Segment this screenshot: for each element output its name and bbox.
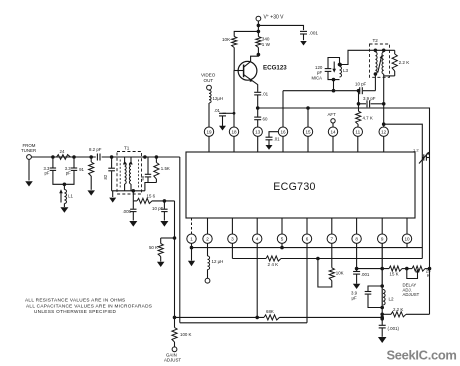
wire (374, 74, 376, 91)
svg-text:15 6: 15 6 (147, 194, 156, 199)
wire (332, 136, 334, 152)
wire (179, 157, 181, 323)
wire (269, 132, 279, 137)
wire (363, 90, 376, 92)
ground (60, 207, 68, 213)
svg-text:18: 18 (231, 129, 237, 134)
wire (63, 204, 65, 208)
winding T2 primary (375, 52, 377, 74)
junction (332, 78, 336, 82)
node GAIN ADJUST terminal (164, 347, 181, 363)
wire (370, 49, 395, 51)
wire (257, 48, 259, 55)
junction (132, 189, 136, 193)
wire (64, 171, 74, 185)
resistor 10K (222, 37, 237, 48)
wire (268, 140, 270, 145)
transistor Q1 ECG123 (234, 61, 287, 82)
capacitor 82 (103, 157, 115, 180)
junction (380, 316, 384, 320)
svg-text:6: 6 (306, 236, 309, 241)
junction (257, 24, 261, 28)
note text (25, 298, 152, 315)
junction (374, 72, 378, 76)
svg-text:100 K: 100 K (180, 332, 192, 337)
wire pin15 (307, 108, 309, 127)
pin 13 (253, 127, 262, 136)
capacitor 60 (254, 116, 268, 121)
svg-text:(.001): (.001) (388, 326, 400, 331)
svg-text:ECG730: ECG730 (273, 181, 315, 193)
pin 11 (353, 127, 362, 136)
svg-text:L3: L3 (343, 68, 349, 73)
svg-text:1.5K: 1.5K (161, 166, 170, 171)
pin 1 (187, 234, 196, 243)
wire (208, 136, 210, 152)
svg-text:5: 5 (281, 236, 284, 241)
inductor 12uH (pin2) (208, 256, 224, 270)
wire (163, 212, 165, 221)
svg-text:OUT: OUT (204, 78, 214, 83)
svg-text:3: 3 (231, 236, 234, 241)
wire (333, 80, 335, 91)
svg-text:24: 24 (60, 149, 65, 154)
inductor 12uH (video) (209, 90, 223, 103)
junction (257, 53, 261, 57)
junction (163, 199, 167, 203)
wire pin3 (231, 243, 233, 258)
junction (173, 236, 177, 240)
junction (382, 102, 386, 106)
svg-text:10K: 10K (222, 37, 231, 42)
resistor 1.5K (154, 157, 170, 179)
svg-text:K: K (427, 273, 430, 278)
wire bus1 68K (175, 316, 383, 318)
wire (383, 136, 385, 152)
wire (257, 21, 259, 37)
wire (384, 74, 395, 76)
svg-text:ALL CAPACITANCE VALUES ARE IN: ALL CAPACITANCE VALUES ARE IN MICROFARAD… (26, 303, 152, 308)
svg-text:2 4 K: 2 4 K (268, 262, 280, 267)
wire (282, 91, 284, 128)
node AFT terminal (328, 112, 337, 123)
inductor L2 tank (351, 286, 394, 308)
wire (145, 183, 157, 191)
wire (191, 218, 193, 234)
svg-text:.01: .01 (274, 137, 281, 142)
svg-text:1: 1 (190, 236, 193, 241)
wire pin8 (356, 243, 358, 268)
resistor 15K (389, 266, 402, 277)
ground (188, 248, 195, 267)
junction (256, 106, 260, 110)
svg-text:14: 14 (330, 129, 336, 134)
svg-text:11: 11 (355, 129, 360, 134)
svg-text:.001: .001 (361, 272, 370, 277)
wire (258, 25, 303, 30)
pin 12 (379, 127, 388, 136)
svg-text:L1: L1 (68, 194, 73, 199)
wire (155, 179, 157, 183)
svg-text:ADJUST: ADJUST (164, 358, 181, 363)
pin 10 (402, 234, 411, 243)
junction (428, 267, 432, 271)
wire pin2 (207, 243, 209, 256)
svg-text:10K: 10K (336, 271, 344, 276)
capacitor .01 (pin18) (214, 108, 226, 116)
svg-text:12 μH: 12 μH (212, 259, 224, 264)
junction (255, 316, 259, 320)
wire bus2 (180, 322, 307, 324)
junction (155, 155, 159, 159)
pin 15 (303, 127, 312, 136)
svg-text:AFT: AFT (328, 112, 337, 117)
pin 9 (378, 234, 387, 243)
junction (380, 267, 384, 271)
junction (257, 30, 261, 34)
svg-text:TUNER: TUNER (21, 148, 36, 153)
svg-text:68: 68 (140, 175, 145, 180)
svg-text:16: 16 (280, 129, 286, 134)
svg-text:VIDEO: VIDEO (201, 73, 216, 78)
junction (357, 102, 361, 106)
junction (382, 122, 386, 126)
wire bus0 (192, 247, 423, 249)
wire (174, 342, 176, 347)
wire 15K line (357, 268, 430, 270)
junction (306, 106, 310, 110)
pin 8 (352, 234, 361, 243)
resistor 2.4K (266, 256, 281, 267)
wire (303, 34, 305, 40)
wire (257, 95, 259, 108)
resistor 4.7K (356, 104, 373, 128)
svg-text:pF: pF (45, 171, 50, 176)
IC U1 ECG730 (186, 152, 415, 218)
capacitor .001 (pin8) (353, 269, 370, 277)
capacitor .01 (pin16) (266, 137, 281, 142)
pin 19 (204, 127, 213, 136)
wire (132, 212, 134, 221)
wire (381, 218, 383, 234)
winding T2 secondary (382, 52, 384, 74)
svg-text:3.9 pF: 3.9 pF (363, 96, 376, 101)
svg-text:pF: pF (317, 70, 322, 75)
wire (231, 218, 233, 234)
inductor L3 tank (312, 58, 349, 81)
wire (257, 136, 259, 152)
svg-text:.01: .01 (214, 108, 221, 113)
wire pin5 (281, 243, 283, 247)
resistor 25K pot (412, 266, 431, 278)
pin 2 (203, 234, 212, 243)
svg-text:91: 91 (79, 167, 84, 172)
junction (380, 317, 384, 321)
wire (357, 136, 359, 152)
capacitor 3.9 pF (363, 96, 376, 107)
wire (381, 328, 383, 337)
wire (160, 257, 162, 262)
wire 2.4K line (232, 258, 422, 260)
svg-text:2.2 K: 2.2 K (399, 60, 411, 65)
junction (190, 246, 194, 250)
junction (110, 155, 114, 159)
wire pin7 (331, 243, 333, 268)
wire (233, 136, 235, 152)
ground (157, 262, 165, 267)
wire (356, 274, 358, 284)
wire (359, 103, 384, 105)
svg-text:T1: T1 (124, 146, 130, 151)
junction (233, 112, 236, 115)
resistor 10K (pin7) (329, 268, 343, 281)
svg-text:13: 13 (255, 129, 261, 134)
ground (378, 337, 387, 343)
wire bus (283, 90, 359, 92)
svg-text:UNLESS OTHERWISE SPECIFIED: UNLESS OTHERWISE SPECIFIED (34, 309, 117, 314)
ground (300, 41, 307, 46)
capacitor 8.2 pF (89, 147, 102, 161)
svg-text:.01: .01 (262, 91, 269, 96)
junction (316, 257, 320, 261)
junction (173, 316, 177, 320)
svg-text:4.7 K: 4.7 K (363, 116, 373, 121)
capacitor 10 pF (355, 81, 367, 94)
svg-text:MICA: MICA (312, 76, 323, 81)
ground (266, 145, 273, 150)
pin 16 (278, 127, 287, 136)
resistor 2.2K (T2) (392, 50, 410, 76)
pin 6 (302, 234, 311, 243)
junction (63, 183, 67, 187)
resistor 100K (172, 317, 192, 342)
capacitor .001 (top) (300, 31, 318, 36)
wire (406, 218, 408, 234)
svg-text:60: 60 (263, 116, 268, 121)
wire (223, 112, 235, 114)
wire collector (251, 55, 259, 62)
resistor 68K (264, 309, 280, 320)
svg-text:10 pF: 10 pF (355, 81, 367, 86)
wire (306, 218, 308, 234)
svg-text:10 pF: 10 pF (152, 206, 164, 211)
pin 14 (328, 127, 337, 136)
wire (332, 123, 334, 127)
junction (338, 63, 342, 67)
ground (25, 159, 33, 186)
node VIDEO OUT terminal (201, 73, 216, 91)
junction (357, 89, 361, 93)
wire (90, 176, 92, 190)
wire emitter bus (258, 108, 430, 314)
wire (132, 191, 134, 201)
transformer T2 (370, 38, 390, 77)
svg-text:2: 2 (206, 236, 209, 241)
wire (282, 136, 284, 152)
svg-text:7: 7 (331, 236, 334, 241)
watermark SeekIC.com (387, 348, 457, 363)
ground (160, 221, 168, 227)
svg-text:.005: .005 (122, 209, 131, 214)
resistor 50K (149, 238, 163, 257)
transformer T1 (117, 146, 142, 195)
wire (383, 76, 385, 102)
svg-text:10: 10 (404, 236, 410, 241)
resistor 340 1W (256, 37, 271, 48)
junction (380, 306, 384, 310)
pot wiper DELAY ADJUST (403, 269, 420, 298)
ground (353, 284, 361, 289)
wire pin9 (381, 243, 383, 286)
wire (381, 308, 383, 326)
wire main input line (31, 156, 179, 158)
ground (219, 126, 226, 131)
wire pin4 (256, 243, 258, 317)
junction (51, 155, 55, 159)
svg-text:2.2 K: 2.2 K (393, 307, 403, 312)
wire (356, 218, 358, 234)
svg-text:12: 12 (381, 129, 387, 134)
capacitor 10 pF (left) (152, 201, 168, 212)
svg-text:68K: 68K (266, 309, 274, 314)
svg-text:50 K: 50 K (149, 245, 158, 250)
svg-text:4: 4 (256, 236, 259, 241)
wire (207, 218, 209, 234)
svg-text:ALL RESISTANCE VALUES ARE IN O: ALL RESISTANCE VALUES ARE IN OHMS (25, 298, 125, 303)
junction (374, 49, 378, 53)
svg-text:15: 15 (305, 129, 311, 134)
svg-text:ECG123: ECG123 (263, 65, 287, 72)
node FROM TUNER terminal (21, 143, 36, 160)
svg-text:15 K: 15 K (390, 272, 399, 277)
junction (405, 267, 409, 271)
wire (53, 171, 65, 185)
svg-text:82: 82 (103, 174, 108, 179)
wire (174, 201, 176, 318)
junction (143, 155, 147, 159)
winding T1 primary (120, 157, 126, 191)
wire (191, 243, 193, 247)
wire (358, 91, 360, 104)
wire (318, 259, 332, 288)
ground (87, 190, 95, 195)
svg-text:8.2 pF: 8.2 pF (89, 147, 102, 152)
wire emitter (253, 81, 258, 92)
pin 18 (229, 127, 238, 136)
capacitor 3.3 pF (a) (44, 157, 57, 176)
ground (109, 191, 116, 203)
wire (222, 116, 224, 126)
wire (111, 171, 113, 191)
pin 4 (253, 234, 262, 243)
svg-text:8: 8 (355, 236, 358, 241)
wire (256, 218, 258, 234)
junction (332, 89, 336, 93)
junction (382, 49, 386, 53)
resistor 91 (79, 157, 94, 176)
wire pin6 (306, 243, 308, 323)
pin 5 (277, 234, 286, 243)
junction (72, 155, 76, 159)
capacitor .01 (emitter) (254, 91, 268, 96)
svg-text:.001: .001 (309, 31, 318, 36)
wire (233, 48, 235, 71)
svg-text:9: 9 (381, 236, 384, 241)
wire (207, 270, 209, 279)
svg-text:12μH: 12μH (213, 96, 224, 101)
svg-text:340: 340 (262, 37, 270, 42)
capacitor 1.2 pF trimmer (413, 148, 430, 164)
svg-text:1 W: 1 W (262, 42, 271, 47)
svg-text:19: 19 (206, 129, 212, 134)
pin 3 (228, 234, 237, 243)
junction (380, 284, 384, 288)
wire (331, 218, 333, 234)
capacitor 68 (140, 157, 151, 181)
wire 50K tap (161, 237, 175, 239)
capacitor .005 (122, 201, 136, 214)
pin 7 (327, 234, 336, 243)
svg-text:SeekIC.com: SeekIC.com (387, 348, 457, 363)
wire (208, 103, 210, 127)
wire pin10 (406, 243, 408, 247)
ground (129, 221, 137, 227)
junction (355, 267, 359, 271)
svg-text:pF: pF (66, 171, 71, 176)
wire (383, 104, 385, 128)
resistor 2.2K (bottom) (382, 307, 429, 317)
inductor L1 (59, 184, 73, 203)
wire T1 bottom (112, 190, 145, 192)
resistor 24 (57, 149, 71, 159)
resistor 156 (133, 194, 174, 204)
capacitor 3.3 pF (b) (65, 157, 77, 176)
arrow T2 slug (378, 55, 383, 73)
wire (281, 218, 283, 234)
winding T1 secondary (129, 157, 138, 191)
capacitor .001 (bottom) (379, 325, 400, 331)
wire (384, 124, 423, 258)
svg-text:T2: T2 (373, 38, 379, 43)
wire (307, 136, 309, 152)
svg-text:ADJUST: ADJUST (403, 292, 420, 297)
junction (280, 246, 284, 250)
wire (257, 108, 259, 127)
node terminal (pin2) (205, 278, 210, 283)
wire (233, 71, 235, 128)
svg-text:μF: μF (352, 295, 358, 300)
wire (234, 31, 258, 36)
junction (89, 155, 93, 159)
junction (380, 313, 384, 317)
wire (147, 177, 149, 182)
svg-text:L2: L2 (389, 297, 395, 302)
node V+ terminal (256, 14, 284, 21)
svg-text:V+ +30 V: V+ +30 V (264, 14, 285, 21)
wire (340, 50, 370, 64)
